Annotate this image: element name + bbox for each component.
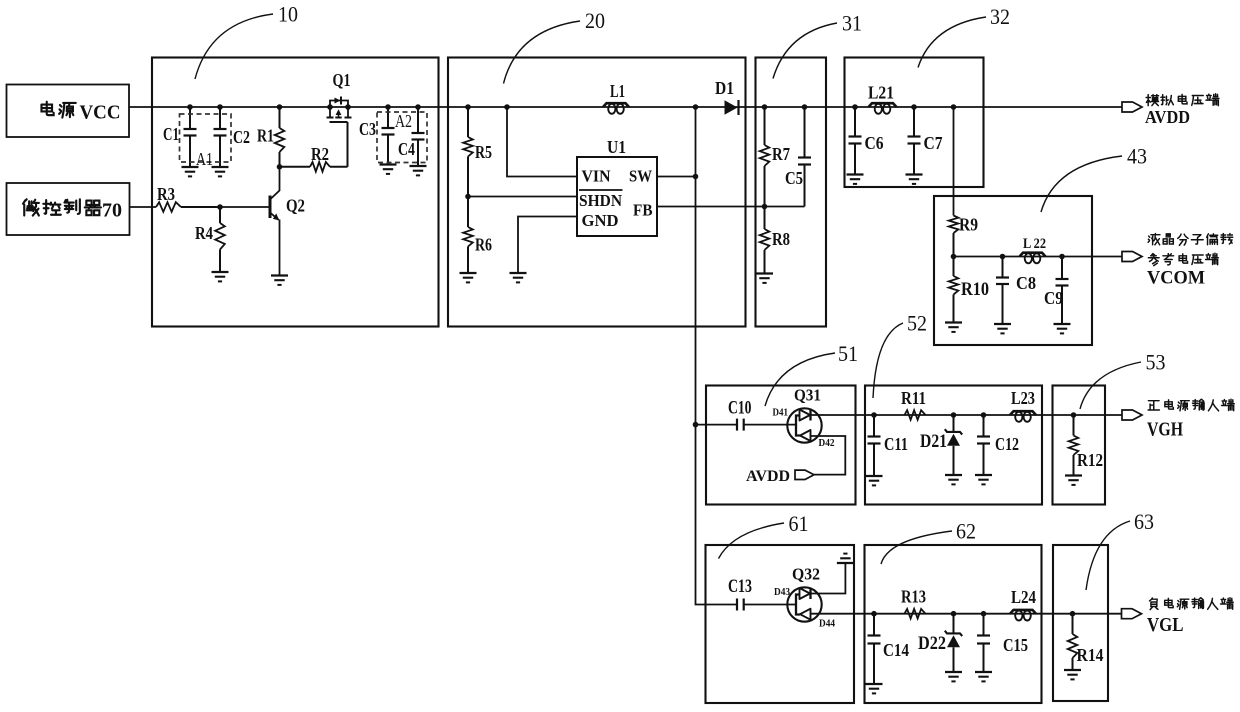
block 53 outline <box>1053 386 1106 505</box>
resistor R14 <box>1068 614 1078 670</box>
label C5 <box>785 168 803 188</box>
label C6 <box>865 133 884 153</box>
label R4 <box>195 223 213 243</box>
capacitor C3 <box>382 107 395 165</box>
label C15 <box>1003 635 1028 655</box>
svg-text:R12: R12 <box>1077 450 1103 470</box>
ref label 61 with leader <box>719 511 809 559</box>
ground under C4 <box>410 166 427 175</box>
ground under R10 <box>945 323 962 332</box>
capacitor C5 <box>798 107 811 207</box>
terminal arrow AVDD <box>1122 102 1142 112</box>
wire: SW riser down to charge pumps <box>696 107 738 605</box>
svg-text:C7: C7 <box>924 133 943 153</box>
svg-text:AVDD: AVDD <box>1145 107 1190 127</box>
svg-text:D43: D43 <box>774 586 790 598</box>
svg-text:C1: C1 <box>163 124 179 144</box>
label R1 <box>257 126 274 146</box>
label R11 <box>901 388 926 408</box>
capacitor C1 <box>184 107 197 167</box>
capacitor C6 <box>849 107 862 175</box>
svg-text:Q2: Q2 <box>286 196 305 216</box>
label U1 <box>607 137 626 157</box>
svg-text:R5: R5 <box>475 142 492 162</box>
wire: GND pin to ground <box>518 217 577 274</box>
svg-text:VIN: VIN <box>582 167 612 186</box>
block: microcontroller 70 box <box>7 183 130 235</box>
label 液晶分子偏转 <box>1148 234 1233 246</box>
svg-text:C13: C13 <box>728 576 752 597</box>
wire: VCOM line <box>954 256 1123 258</box>
label VGL <box>1147 614 1184 636</box>
label 模拟电压端 <box>1146 94 1219 106</box>
svg-text:U1: U1 <box>607 137 626 157</box>
label Q32 <box>792 565 820 584</box>
pin SHDN with overline <box>579 190 623 210</box>
svg-text:C11: C11 <box>884 434 908 454</box>
ground under D22 <box>945 672 962 681</box>
node R7/R8/FB junction <box>762 204 768 210</box>
svg-text:C9: C9 <box>1044 288 1063 308</box>
terminal arrow VGL <box>1122 609 1142 619</box>
ref label 62 with leader <box>881 519 976 565</box>
dashed box A2 <box>377 112 427 163</box>
svg-text:63: 63 <box>1134 509 1154 534</box>
label R2 <box>311 144 329 164</box>
node D22 top <box>951 611 957 617</box>
label D1 <box>715 78 734 98</box>
label A2 <box>395 111 412 131</box>
capacitor C2 <box>214 107 227 167</box>
svg-text:C14: C14 <box>883 640 909 660</box>
ground under D21 <box>945 475 962 484</box>
node R12 top <box>1071 412 1077 418</box>
svg-text:D21: D21 <box>920 431 947 452</box>
IC U1 boost converter box <box>577 157 657 236</box>
resistor R6 <box>463 197 473 274</box>
svg-text:C5: C5 <box>785 168 803 188</box>
resistor R7 <box>760 107 770 207</box>
node Q1 right <box>345 104 351 110</box>
node R5 top <box>465 104 471 110</box>
block 43 outline <box>934 196 1092 345</box>
capacitor C14 <box>868 614 881 684</box>
node C8 top <box>1000 254 1006 260</box>
svg-text:Q32: Q32 <box>792 565 820 584</box>
ref label 43 with leader <box>1041 144 1147 213</box>
label R6 <box>475 235 492 255</box>
node AVDD branch <box>951 104 957 110</box>
ground under C1 <box>182 167 199 176</box>
svg-text:L1: L1 <box>610 81 625 101</box>
wire: base line to Q2 <box>220 206 269 208</box>
ground under C14 <box>866 684 883 693</box>
svg-text:20: 20 <box>585 8 605 33</box>
label 负电源输入端 <box>1150 598 1234 610</box>
block 32 outline <box>845 58 984 188</box>
node SW junction <box>693 174 699 180</box>
label C4 <box>398 139 415 159</box>
svg-text:R3: R3 <box>157 184 175 204</box>
node riser/C10 junction <box>693 422 699 428</box>
label R9 <box>959 215 978 235</box>
label 参考电压端 <box>1148 253 1218 265</box>
ground under C8 <box>994 324 1011 333</box>
label C2 <box>233 127 250 147</box>
label R5 <box>475 142 492 162</box>
ref label 31 with leader <box>773 11 862 79</box>
label C13 <box>728 576 752 597</box>
node C9 top <box>1059 254 1065 260</box>
pin VIN <box>582 167 612 186</box>
resistor R11 <box>905 410 926 420</box>
transistor Q31 circle and base bracket <box>787 408 821 442</box>
ground under R8 <box>756 274 773 283</box>
label R14 <box>1077 645 1104 665</box>
zener diode D21 <box>945 415 962 475</box>
label D44 <box>819 618 835 630</box>
resistor R13 <box>905 609 926 619</box>
node main/SW riser <box>693 104 699 110</box>
svg-text:D41: D41 <box>773 407 789 419</box>
label L24 <box>1011 587 1036 607</box>
label C11 <box>884 434 908 454</box>
diode D42 <box>800 430 811 441</box>
node C5 top <box>802 104 808 110</box>
resistor R10 <box>949 257 959 323</box>
wire: D43 to top ground <box>811 563 846 594</box>
node R14 top <box>1070 611 1076 617</box>
svg-text:61: 61 <box>789 511 809 536</box>
ground under Q2 <box>271 276 288 285</box>
label Q31 <box>794 386 821 405</box>
svg-text:FB: FB <box>633 201 653 220</box>
ref label 52 with leader <box>873 311 927 399</box>
ground under C7 <box>906 175 923 184</box>
diode D43 <box>800 588 811 600</box>
svg-text:D42: D42 <box>819 437 835 449</box>
label C1 <box>163 124 179 144</box>
label C9 <box>1044 288 1063 308</box>
node C7 top <box>911 104 917 110</box>
pin GND <box>582 211 619 230</box>
wire: microcontroller output line <box>130 206 157 208</box>
svg-text:C8: C8 <box>1016 273 1036 293</box>
svg-text:L23: L23 <box>1011 388 1035 408</box>
transistor Q2 (NPN) <box>270 167 280 276</box>
label AVDD input <box>746 468 790 485</box>
label D21 <box>920 431 947 452</box>
svg-text:C2: C2 <box>233 127 250 147</box>
block 52 outline <box>865 386 1042 505</box>
node VIN feed <box>504 104 510 110</box>
diode D1 <box>725 100 739 115</box>
svg-text:R6: R6 <box>475 235 492 255</box>
wire: FB pin line <box>657 206 805 208</box>
block 20 outline <box>448 58 746 327</box>
label C10 <box>728 398 752 419</box>
ground for U1 GND pin <box>510 273 527 282</box>
resistor R8 <box>760 207 770 274</box>
block 61 outline <box>706 545 855 703</box>
svg-text:70: 70 <box>102 200 122 222</box>
ref label 63 with leader <box>1086 509 1154 590</box>
block 62 outline <box>865 545 1042 703</box>
svg-text:R13: R13 <box>901 587 926 607</box>
capacitor C9 <box>1056 257 1069 325</box>
svg-text:62: 62 <box>956 519 976 544</box>
node C4 top <box>415 104 421 110</box>
svg-text:Q1: Q1 <box>333 70 351 90</box>
terminal arrow VCOM <box>1122 252 1142 262</box>
svg-text:R8: R8 <box>772 229 790 249</box>
resistor R1 <box>275 107 285 167</box>
label 微控制器70 <box>23 199 122 221</box>
ground under R4 <box>212 272 229 281</box>
inductor L23 <box>1010 411 1036 422</box>
svg-text:32: 32 <box>990 4 1010 29</box>
capacitor C8 <box>996 257 1009 325</box>
svg-text:C6: C6 <box>865 133 884 153</box>
svg-text:D1: D1 <box>715 78 734 98</box>
ref label 32 with leader <box>918 4 1010 68</box>
svg-text:A1: A1 <box>196 149 213 169</box>
label VCOM <box>1147 268 1205 289</box>
label R7 <box>772 144 790 164</box>
svg-text:R1: R1 <box>257 126 274 146</box>
ref label 53 with leader <box>1080 350 1166 410</box>
svg-text:VCOM: VCOM <box>1147 268 1205 289</box>
svg-text:AVDD: AVDD <box>746 468 790 485</box>
label C8 <box>1016 273 1036 293</box>
wire: VGH line from Q31 <box>811 414 1122 416</box>
node R3/R4 junction <box>217 204 223 210</box>
label 电源VCC <box>41 102 120 124</box>
label C7 <box>924 133 943 153</box>
label Q2 <box>286 196 305 216</box>
pin FB <box>633 201 653 220</box>
svg-text:R2: R2 <box>311 144 329 164</box>
ground under C6 <box>847 175 864 184</box>
block 51 outline <box>706 386 856 505</box>
capacitor C15 <box>977 614 990 672</box>
inverted ground above Q32 <box>837 554 854 563</box>
node C11 top <box>871 412 877 418</box>
svg-text:SW: SW <box>629 167 652 186</box>
label R3 <box>157 184 175 204</box>
label 正电源输入端 <box>1148 399 1234 411</box>
terminal arrow VGH <box>1122 410 1142 420</box>
label R8 <box>772 229 790 249</box>
terminal arrow AVDD input <box>795 470 814 479</box>
node R9/R10 VCOM junction <box>951 254 957 260</box>
inductor L21 <box>869 103 897 114</box>
node C1 top <box>187 104 193 110</box>
resistor R3 <box>156 202 220 212</box>
svg-text:R7: R7 <box>772 144 790 164</box>
svg-text:D22: D22 <box>918 633 946 654</box>
svg-text:43: 43 <box>1127 144 1147 169</box>
svg-text:53: 53 <box>1146 350 1166 375</box>
svg-text:VGL: VGL <box>1147 614 1184 636</box>
block: power source VCC input box <box>7 85 130 138</box>
ground under R14 <box>1064 670 1081 679</box>
ref label 51 with leader <box>765 341 858 406</box>
label R12 <box>1077 450 1103 470</box>
inductor L1 <box>603 103 629 114</box>
svg-text:R4: R4 <box>195 223 213 243</box>
node C6 top <box>852 104 858 110</box>
ground under C9 <box>1054 324 1071 333</box>
label D43 <box>774 586 790 598</box>
label A1 <box>196 149 213 169</box>
capacitor C10 <box>737 419 797 431</box>
wire: branch down to R9 <box>953 107 955 216</box>
ref label 20 with leader <box>504 8 606 84</box>
svg-text:R9: R9 <box>959 215 978 235</box>
svg-text:31: 31 <box>842 11 862 36</box>
label L22 <box>1023 236 1046 252</box>
resistor R5 <box>463 107 473 197</box>
node Q1 left <box>327 104 333 110</box>
wire: main VCC rail <box>129 106 1122 108</box>
node C2 top <box>217 104 223 110</box>
svg-text:L24: L24 <box>1011 587 1036 607</box>
svg-text:R10: R10 <box>961 279 989 300</box>
svg-text:C12: C12 <box>995 434 1019 454</box>
svg-text:Q31: Q31 <box>794 386 821 405</box>
inductor L24 <box>1010 610 1036 621</box>
label L23 <box>1011 388 1035 408</box>
ground under C15 <box>975 672 992 681</box>
svg-text:SHDN: SHDN <box>579 191 623 210</box>
svg-text:51: 51 <box>838 341 858 366</box>
wire: SW pin line <box>657 176 696 178</box>
node C15 top <box>981 611 987 617</box>
pin SW <box>629 167 652 186</box>
zener diode D22 <box>945 614 962 672</box>
svg-text:C10: C10 <box>728 398 752 419</box>
ground under C11 <box>866 476 883 485</box>
node C14 top <box>871 611 877 617</box>
dashed box A1 <box>180 114 232 162</box>
resistor R9 <box>949 216 959 257</box>
svg-text:C3: C3 <box>359 119 376 139</box>
resistor R12 <box>1069 415 1079 476</box>
node R7 top <box>762 104 768 110</box>
svg-text:D44: D44 <box>819 618 835 630</box>
svg-text:VCC: VCC <box>80 102 121 124</box>
capacitor C4 <box>412 107 425 166</box>
wire: R2 to Q1 gate <box>347 122 349 167</box>
block 31 outline <box>756 58 827 327</box>
svg-text:GND: GND <box>582 211 619 230</box>
label C14 <box>883 640 909 660</box>
diode D41 <box>800 409 811 421</box>
wire: riser to C10 <box>696 424 738 426</box>
label VGH <box>1147 419 1183 441</box>
wire: D42 to AVDD input <box>811 436 846 475</box>
wire: SHDN line <box>468 196 577 198</box>
node C3 top <box>385 104 391 110</box>
block 10 outline <box>152 58 439 327</box>
capacitor C13 <box>737 599 797 611</box>
resistor R2 <box>280 162 348 172</box>
label C3 <box>359 119 376 139</box>
label C12 <box>995 434 1019 454</box>
wire: VGL line from Q32 <box>811 613 1122 615</box>
ground under R6 <box>460 273 477 282</box>
transistor Q1 (PMOS) <box>327 97 352 123</box>
svg-text:L 22: L 22 <box>1023 236 1046 252</box>
node D21 top <box>951 412 957 418</box>
svg-text:R14: R14 <box>1077 645 1104 665</box>
ground under C3 <box>380 165 397 174</box>
ground under C12 <box>975 475 992 484</box>
wire: VIN feed <box>507 107 577 177</box>
transistor Q32 circle and base bracket <box>787 587 821 621</box>
svg-text:A2: A2 <box>395 111 412 131</box>
node C12 top <box>981 412 987 418</box>
svg-text:VGH: VGH <box>1147 419 1183 441</box>
inductor L22 <box>1020 253 1046 264</box>
node R1 bottom / R2 junction <box>277 164 283 170</box>
label D42 <box>819 437 835 449</box>
ground under C2 <box>212 167 229 176</box>
label R13 <box>901 587 926 607</box>
capacitor C7 <box>908 107 921 175</box>
label R10 <box>961 279 989 300</box>
svg-text:L21: L21 <box>868 83 894 103</box>
node R1 top <box>277 104 283 110</box>
svg-text:C15: C15 <box>1003 635 1028 655</box>
label AVDD <box>1145 107 1190 127</box>
label Q1 <box>333 70 351 90</box>
svg-text:52: 52 <box>907 311 927 336</box>
label D22 <box>918 633 946 654</box>
label L21 <box>868 83 894 103</box>
label D41 <box>773 407 789 419</box>
ref label 10 with leader <box>195 2 298 80</box>
capacitor C11 <box>868 415 881 476</box>
diode D44 <box>800 609 811 620</box>
svg-text:C4: C4 <box>398 139 415 159</box>
label L1 <box>610 81 625 101</box>
svg-text:R11: R11 <box>901 388 926 408</box>
node R5/R6 SHDN junction <box>465 194 471 200</box>
svg-text:10: 10 <box>278 2 298 27</box>
capacitor C12 <box>977 415 990 475</box>
ground under R12 <box>1065 476 1082 485</box>
resistor R4 <box>215 207 225 272</box>
block 63 outline <box>1053 545 1108 701</box>
